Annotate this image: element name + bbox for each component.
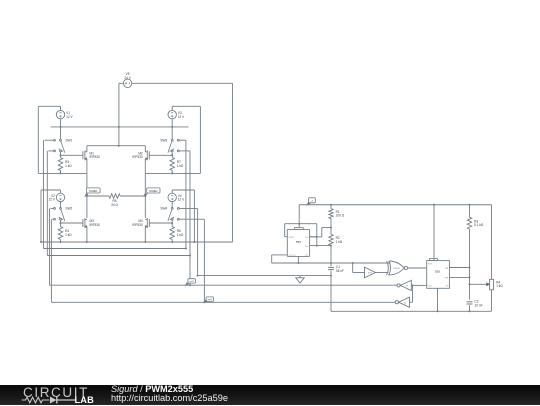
- svg-text:IRF530: IRF530: [90, 155, 101, 159]
- svg-text:RESET: RESET: [289, 237, 296, 239]
- svg-text:12 V: 12 V: [66, 115, 73, 119]
- svg-text:THR: THR: [444, 277, 449, 279]
- svg-text:100 Ω: 100 Ω: [336, 214, 345, 218]
- svg-text:OUT: OUT: [428, 285, 433, 287]
- svg-text:1 kΩ: 1 kΩ: [496, 284, 503, 288]
- svg-text:SW2: SW2: [66, 207, 73, 211]
- svg-text:DIS: DIS: [445, 268, 449, 270]
- svg-text:N1: N1: [406, 286, 409, 288]
- svg-text:24 V: 24 V: [124, 76, 131, 80]
- svg-text:555: 555: [296, 240, 301, 244]
- svg-text:XNOR: XNOR: [393, 268, 400, 270]
- svg-text:THR: THR: [305, 246, 309, 248]
- svg-text:10 nF: 10 nF: [475, 303, 483, 307]
- svg-text:CV: CV: [446, 285, 449, 287]
- svg-text:SW4: SW4: [160, 207, 167, 211]
- svg-text:OUTPUT: OUTPUT: [289, 255, 297, 257]
- svg-text:N2: N2: [404, 302, 407, 304]
- svg-text:RST: RST: [428, 263, 433, 265]
- svg-text:56 nF: 56 nF: [336, 269, 344, 273]
- svg-text:DIS: DIS: [305, 237, 309, 239]
- svg-text:SW3: SW3: [160, 138, 167, 142]
- svg-text:24 Ω: 24 Ω: [111, 203, 118, 207]
- svg-text:12 V: 12 V: [178, 198, 185, 202]
- svg-text:NODE1: NODE1: [89, 190, 98, 193]
- svg-text:IRF530: IRF530: [132, 155, 143, 159]
- svg-text:12 V: 12 V: [178, 115, 185, 119]
- svg-text:NODE2: NODE2: [149, 190, 158, 193]
- svg-text:1 kΩ: 1 kΩ: [65, 233, 72, 237]
- svg-text:555: 555: [435, 270, 440, 274]
- svg-text:12 V: 12 V: [48, 198, 55, 202]
- svg-text:1 kΩ: 1 kΩ: [336, 240, 343, 244]
- svg-text:1 kΩ: 1 kΩ: [177, 164, 184, 168]
- svg-text:IRF530: IRF530: [132, 223, 143, 227]
- svg-text:CTL: CTL: [305, 255, 308, 257]
- svg-text:5.1 kΩ: 5.1 kΩ: [474, 223, 484, 227]
- svg-text:BUF: BUF: [368, 273, 373, 275]
- svg-text:SW1: SW1: [66, 138, 73, 142]
- svg-text:IRF530: IRF530: [90, 223, 101, 227]
- svg-text:1 kΩ: 1 kΩ: [65, 164, 72, 168]
- svg-text:1 kΩ: 1 kΩ: [177, 233, 184, 237]
